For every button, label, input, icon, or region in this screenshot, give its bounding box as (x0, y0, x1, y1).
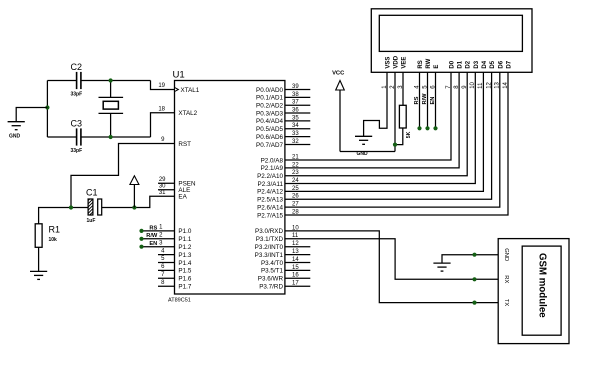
svg-text:GND: GND (9, 134, 21, 140)
svg-text:30: 30 (159, 183, 166, 189)
junction dot: C1 / VCC arrow (132, 205, 136, 209)
svg-text:P3.4/T0: P3.4/T0 (261, 260, 284, 267)
svg-text:D7: D7 (507, 60, 513, 68)
svg-text:P3.2/INT0: P3.2/INT0 (255, 244, 284, 251)
svg-text:XTAL1: XTAL1 (181, 87, 200, 94)
wire: LCD pin 1 VSS to ground (364, 72, 387, 136)
svg-text:VDD: VDD (394, 55, 400, 68)
junction dot: C3 / crystal bottom (109, 135, 113, 139)
svg-text:RS: RS (418, 60, 424, 68)
GSM module inner box (522, 246, 561, 335)
svg-text:P2.0/A8: P2.0/A8 (261, 157, 284, 164)
capacitor C2 (71, 62, 83, 98)
svg-text:D3: D3 (474, 60, 480, 68)
svg-text:1uF: 1uF (87, 218, 96, 224)
U1 pin 17 P3.7/RD (right) (259, 281, 310, 291)
junction dot: GSM RX (472, 277, 476, 281)
wire: U1 P3.1/TXD (pin 11) to GSM RX (285, 239, 498, 279)
U1 pin 13 P3.3/INT1 (right) (255, 249, 311, 259)
svg-text:P1.1: P1.1 (178, 236, 191, 243)
svg-text:33pF: 33pF (71, 148, 83, 154)
ground (GSM) (433, 263, 450, 271)
U1 pin 23 P2.2/A10 (right) (257, 170, 299, 180)
svg-text:P3.3/INT1: P3.3/INT1 (255, 252, 284, 259)
ground (R1) (30, 271, 47, 279)
svg-text:XTAL2: XTAL2 (178, 110, 197, 117)
U1 pin 18 XTAL2 (left) (158, 107, 197, 118)
svg-text:P2.1/A9: P2.1/A9 (261, 165, 284, 172)
wire: LCD EN stub (435, 72, 437, 128)
svg-text:P0.5/AD5: P0.5/AD5 (256, 126, 283, 133)
svg-text:P0.0/AD0: P0.0/AD0 (256, 87, 283, 94)
svg-text:P2.2/A10: P2.2/A10 (257, 173, 283, 180)
svg-text:EN: EN (430, 97, 436, 105)
svg-text:P1.5: P1.5 (178, 268, 191, 275)
svg-text:U1: U1 (173, 69, 185, 80)
junction dot: net RS (417, 126, 421, 130)
U1 pin 8 P1.7 (left) (158, 280, 192, 291)
U1 pin 16 P3.6/WR (right) (258, 273, 311, 283)
U1 pin 4 P1.3 (left) (158, 248, 192, 259)
junction dot: net R/W (425, 126, 429, 130)
svg-text:P3.5/T1: P3.5/T1 (261, 268, 284, 275)
svg-text:P0.7/AD7: P0.7/AD7 (256, 142, 283, 149)
svg-text:R/W: R/W (422, 93, 428, 105)
U1 pin 11 P3.1/TXD (right) (256, 233, 299, 243)
wire XTAL1 net: C2 to crystal top to chip pin 19 (47, 81, 174, 98)
svg-text:C3: C3 (71, 119, 83, 129)
svg-text:P0.2/AD2: P0.2/AD2 (256, 103, 283, 110)
wire: LCD pin 3 VEE to contrast resistor (402, 72, 404, 105)
resistor R1 (35, 224, 60, 248)
svg-text:P2.4/A12: P2.4/A12 (257, 189, 283, 196)
capacitor C1 (electrolytic) (86, 187, 102, 224)
ground (LCD VSS) (355, 136, 372, 144)
wire: LCD D2 to U1 P2.2 (pin 23) (285, 72, 467, 175)
svg-text:P3.0/RXD: P3.0/RXD (255, 228, 283, 235)
wire: LCD D0 to U1 P2.0 (pin 21) (285, 72, 451, 160)
U1 pin 30 ALE (left) (158, 183, 190, 194)
U1 pin 2 P1.1 (left) (139, 233, 191, 244)
svg-text:P3.6/WR: P3.6/WR (258, 276, 284, 283)
svg-text:P2.7/A15: P2.7/A15 (257, 212, 283, 219)
U1 pin 7 P1.6 (left) (158, 272, 192, 283)
junction dot: GSM GND (472, 253, 476, 257)
U1 pin 22 P2.1/A9 (right) (261, 162, 300, 172)
wire: 5K resistor bottom to VDD wire (395, 128, 403, 145)
wire: GSM GND pin to ground (442, 255, 498, 263)
svg-text:P1.0: P1.0 (178, 228, 191, 235)
U1 pin 10 P3.0/RXD (right) (255, 225, 299, 235)
U1 pin 14 P3.4/T0 (right) (261, 257, 310, 267)
junction dot: crystal caps to ground branch (45, 105, 49, 109)
wire: LCD R/W stub (427, 72, 429, 128)
svg-text:P2.3/A11: P2.3/A11 (258, 181, 284, 188)
svg-text:P0.3/AD3: P0.3/AD3 (256, 110, 283, 117)
svg-text:33pF: 33pF (71, 92, 83, 98)
U1 pin 19 XTAL1 (left) (158, 83, 199, 94)
wire: VCC rail to LCD VDD (340, 151, 395, 153)
U1 pin 21 P2.0/A8 (right) (261, 154, 300, 164)
svg-text:GND: GND (356, 151, 368, 157)
U1 pin 12 P3.2/INT0 (right) (255, 241, 311, 251)
U1 pin 1 P1.0 (left) (139, 225, 191, 236)
svg-text:VSS: VSS (386, 57, 392, 69)
junction dot: RST / R1 / C1 (69, 205, 73, 209)
svg-text:P1.7: P1.7 (178, 284, 191, 291)
svg-text:RS: RS (149, 225, 157, 231)
U1 pin 3 P1.2 (left) (139, 240, 191, 251)
junction dot: VDD / 5K (393, 143, 397, 147)
U1 pin 35 P0.4/AD4 (right) (256, 115, 310, 125)
svg-text:AT89C51: AT89C51 (168, 297, 191, 303)
svg-text:D0: D0 (450, 60, 456, 68)
svg-text:P1.4: P1.4 (178, 260, 191, 267)
wire: R1 bottom to ground (38, 247, 40, 271)
wire: U1 P3.0/RXD (pin 10) to GSM TX (285, 231, 498, 303)
svg-text:VEE: VEE (402, 57, 408, 69)
svg-text:P2.6/A14: P2.6/A14 (257, 204, 283, 211)
U1 pin 25 P2.4/A12 (right) (257, 186, 299, 196)
junction dot: net EN (433, 126, 437, 130)
U1 pin 29 PSEN (left) (158, 177, 196, 188)
svg-text:E: E (434, 65, 440, 69)
U1 pin 24 P2.3/A11 (right) (258, 178, 300, 188)
U1 pin 37 P0.2/AD2 (right) (256, 100, 310, 110)
wire to left ground (16, 108, 47, 122)
svg-text:D6: D6 (498, 60, 504, 68)
wire XTAL2 net: C3 to crystal bottom to chip pin 18 (47, 113, 174, 137)
svg-text:31: 31 (159, 190, 166, 196)
svg-text:P1.6: P1.6 (178, 276, 191, 283)
svg-text:19: 19 (158, 83, 165, 89)
svg-text:18: 18 (158, 107, 165, 113)
GSM module body (498, 239, 569, 344)
ground (crystal caps) (8, 122, 25, 130)
U1 pin 27 P2.6/A14 (right) (257, 202, 299, 212)
capacitor C3 (71, 119, 83, 155)
svg-text:10k: 10k (49, 237, 58, 243)
IC U1 AT89C51 microcontroller body (175, 81, 285, 295)
U1 pin 36 P0.3/AD3 (right) (256, 107, 310, 117)
U1 pin 38 P0.1/AD1 (right) (256, 92, 310, 102)
svg-text:29: 29 (159, 177, 166, 183)
resistor 5K (contrast) (399, 105, 412, 138)
U1 pin 33 P0.6/AD6 (right) (256, 131, 310, 141)
power arrow VCC (LCD supply) (332, 70, 345, 151)
svg-text:P0.6/AD6: P0.6/AD6 (256, 134, 283, 141)
svg-text:P3.7/RD: P3.7/RD (259, 284, 283, 291)
power arrow (VCC) near EA (130, 176, 139, 208)
svg-text:P0.4/AD4: P0.4/AD4 (256, 118, 283, 125)
LCD module body (371, 9, 532, 73)
svg-text:P3.1/TXD: P3.1/TXD (256, 236, 284, 243)
LCD display window (379, 15, 522, 51)
svg-text:GND: GND (503, 248, 509, 261)
U1 pin 6 P1.5 (left) (158, 264, 192, 275)
svg-text:P1.3: P1.3 (178, 252, 191, 259)
svg-text:5K: 5K (406, 131, 412, 138)
svg-text:C2: C2 (71, 62, 83, 72)
U1 pin 5 P1.4 (left) (158, 256, 192, 267)
junction dot: GSM TX (472, 301, 476, 305)
wire: LCD RS stub (419, 72, 421, 128)
U1 pin 28 P2.7/A15 (right) (257, 209, 299, 219)
svg-text:D2: D2 (466, 60, 472, 68)
U1 pin 39 P0.0/AD0 (right) (256, 84, 310, 94)
svg-text:P0.1/AD1: P0.1/AD1 (256, 95, 283, 102)
U1 pin 9 RST (left) (161, 137, 191, 148)
U1 pin 15 P3.5/T1 (right) (261, 265, 310, 275)
U1 pin 31 EA (left) (159, 190, 188, 201)
svg-text:D5: D5 (490, 60, 496, 68)
svg-text:TX: TX (503, 299, 509, 307)
svg-text:P2.5/A13: P2.5/A13 (257, 197, 283, 204)
wire: C1 right plate to chip EA pin 31 (102, 196, 175, 207)
svg-text:RW: RW (426, 58, 432, 68)
svg-text:VCC: VCC (332, 70, 345, 76)
wire: left vertical joining C2 and C3 (46, 81, 48, 138)
junction dot: C2 / crystal top (109, 78, 113, 82)
U1 pin 32 P0.7/AD7 (right) (256, 139, 310, 149)
svg-text:EA: EA (178, 194, 187, 201)
U1 pin 34 P0.5/AD5 (right) (256, 123, 310, 133)
wire: LCD D5 to U1 P2.5 (pin 26) (285, 72, 492, 199)
svg-text:R/W: R/W (146, 233, 158, 239)
U1 pin 26 P2.5/A13 (right) (257, 194, 299, 204)
wire: LCD D4 to U1 P2.4 (pin 25) (285, 72, 484, 191)
svg-text:P1.2: P1.2 (178, 244, 191, 251)
svg-text:RST: RST (178, 141, 191, 148)
svg-text:RX: RX (503, 275, 509, 283)
svg-text:RS: RS (414, 96, 420, 104)
svg-text:EN: EN (149, 241, 157, 247)
svg-text:GSM modulee: GSM modulee (536, 253, 547, 318)
wire: LCD D1 to U1 P2.1 (pin 22) (285, 72, 459, 168)
svg-text:D1: D1 (458, 60, 464, 68)
svg-text:D4: D4 (482, 60, 488, 68)
wire: LCD D7 to U1 P2.7 (pin 28) (285, 72, 508, 215)
svg-text:C1: C1 (86, 187, 98, 197)
wire: LCD D3 to U1 P2.3 (pin 24) (285, 72, 475, 183)
crystal X1 (99, 97, 124, 113)
wire: R1 top to C1 left plate (39, 208, 89, 224)
svg-text:R1: R1 (49, 225, 61, 235)
wire RST: chip pin 9 down to C1/R1 node (71, 144, 175, 208)
wire: LCD pin 2 VDD down to VCC rail (394, 72, 396, 151)
wire: LCD D6 to U1 P2.6 (pin 27) (285, 72, 500, 207)
